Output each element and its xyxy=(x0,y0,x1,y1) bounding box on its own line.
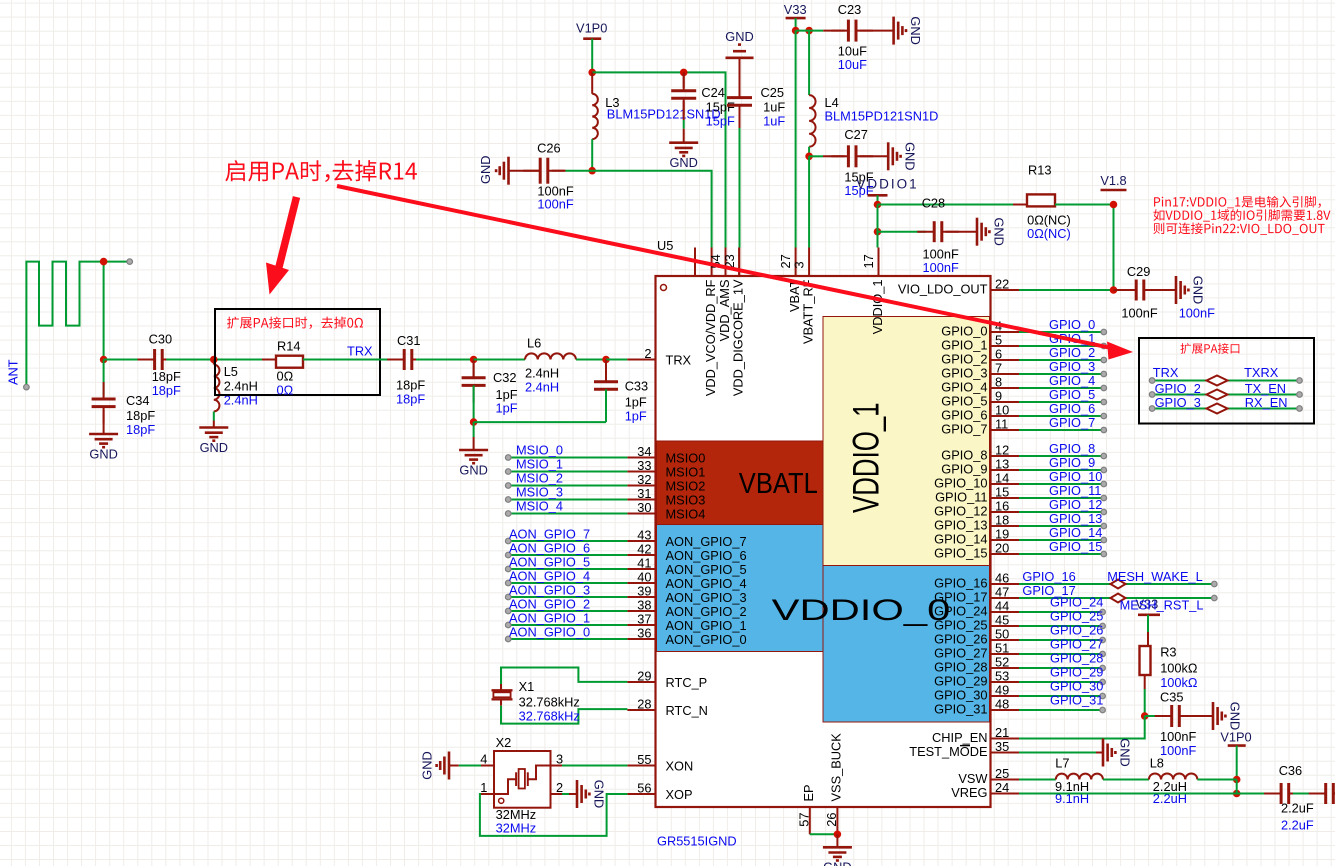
svg-text:2.2uF: 2.2uF xyxy=(1281,817,1314,832)
svg-text:GPIO_10: GPIO_10 xyxy=(1049,469,1102,484)
svg-text:TRX: TRX xyxy=(1153,365,1179,380)
svg-text:AON_GPIO_5: AON_GPIO_5 xyxy=(509,555,590,570)
svg-text:AON_GPIO_4: AON_GPIO_4 xyxy=(509,569,590,584)
svg-text:AON_GPIO_3: AON_GPIO_3 xyxy=(666,590,747,605)
svg-text:GPIO_25: GPIO_25 xyxy=(934,618,987,633)
svg-text:51: 51 xyxy=(995,641,1009,656)
svg-text:1uF: 1uF xyxy=(763,114,785,129)
svg-text:GPIO_24: GPIO_24 xyxy=(1050,595,1103,610)
svg-text:21: 21 xyxy=(995,725,1009,740)
svg-text:2.4nH: 2.4nH xyxy=(525,365,559,380)
svg-text:41: 41 xyxy=(637,556,651,571)
svg-text:10uF: 10uF xyxy=(838,57,867,72)
svg-text:VDD_DIGCORE_1V: VDD_DIGCORE_1V xyxy=(731,279,746,396)
svg-text:GR5515IGND: GR5515IGND xyxy=(657,834,737,849)
svg-text:100nF: 100nF xyxy=(1179,306,1215,321)
svg-text:GND: GND xyxy=(89,447,117,462)
svg-text:GPIO_1: GPIO_1 xyxy=(941,338,987,353)
svg-text:100nF: 100nF xyxy=(923,260,959,275)
svg-text:32.768kHz: 32.768kHz xyxy=(519,695,580,710)
svg-text:2.4nH: 2.4nH xyxy=(224,378,258,393)
svg-text:100nF: 100nF xyxy=(1160,729,1196,744)
svg-text:MSIO2: MSIO2 xyxy=(666,479,706,494)
svg-text:22: 22 xyxy=(995,277,1009,292)
svg-text:15: 15 xyxy=(995,485,1009,500)
svg-text:AON_GPIO_4: AON_GPIO_4 xyxy=(666,576,747,591)
svg-text:33: 33 xyxy=(637,458,651,473)
svg-text:100nF: 100nF xyxy=(1160,743,1196,758)
svg-text:GPIO_28: GPIO_28 xyxy=(934,660,987,675)
svg-text:18pF: 18pF xyxy=(152,369,181,384)
svg-text:VBATT_RF: VBATT_RF xyxy=(801,279,816,344)
svg-text:C26: C26 xyxy=(537,141,560,156)
svg-text:MSIO3: MSIO3 xyxy=(666,493,706,508)
svg-text:C24: C24 xyxy=(701,85,724,100)
svg-text:37: 37 xyxy=(637,612,651,627)
svg-text:39: 39 xyxy=(637,584,651,599)
svg-text:GPIO_6: GPIO_6 xyxy=(941,408,987,423)
svg-text:L8: L8 xyxy=(1150,755,1164,770)
svg-text:GPIO_31: GPIO_31 xyxy=(934,702,987,717)
svg-text:GPIO_26: GPIO_26 xyxy=(1050,623,1103,638)
svg-text:14: 14 xyxy=(995,471,1009,486)
svg-text:8: 8 xyxy=(995,375,1002,390)
svg-text:MSIO0: MSIO0 xyxy=(666,451,706,466)
svg-text:VDDIO_1: VDDIO_1 xyxy=(870,280,885,335)
svg-text:C25: C25 xyxy=(761,85,784,100)
svg-text:17: 17 xyxy=(861,254,876,268)
svg-text:MSIO_4: MSIO_4 xyxy=(516,499,563,514)
svg-text:GPIO_29: GPIO_29 xyxy=(1050,665,1103,680)
svg-text:15pF: 15pF xyxy=(706,100,735,115)
svg-text:24: 24 xyxy=(995,780,1009,795)
svg-text:GND: GND xyxy=(478,156,493,184)
svg-text:GPIO_2: GPIO_2 xyxy=(941,352,987,367)
svg-text:L5: L5 xyxy=(224,364,238,379)
svg-text:38: 38 xyxy=(637,598,651,613)
svg-text:VDDIO1: VDDIO1 xyxy=(856,176,918,191)
svg-text:3: 3 xyxy=(792,261,807,268)
svg-text:VDD_VCO/VDD_RF: VDD_VCO/VDD_RF xyxy=(703,279,718,396)
svg-text:MESH_WAKE_L: MESH_WAKE_L xyxy=(1107,569,1203,584)
svg-text:GPIO_3: GPIO_3 xyxy=(941,366,987,381)
svg-text:18pF: 18pF xyxy=(152,383,181,398)
svg-text:18pF: 18pF xyxy=(126,422,155,437)
svg-text:RX_EN: RX_EN xyxy=(1245,395,1288,410)
svg-text:GND: GND xyxy=(669,155,697,170)
svg-text:X1: X1 xyxy=(519,679,535,694)
svg-text:GPIO_6: GPIO_6 xyxy=(1049,401,1095,416)
svg-text:VSS_BUCK: VSS_BUCK xyxy=(829,733,844,802)
svg-text:44: 44 xyxy=(995,599,1009,614)
svg-text:100kΩ: 100kΩ xyxy=(1160,675,1198,690)
svg-text:GND: GND xyxy=(725,29,753,44)
svg-text:GPIO_15: GPIO_15 xyxy=(1049,539,1102,554)
svg-text:GPIO_8: GPIO_8 xyxy=(1049,441,1095,456)
svg-text:VIO_LDO_OUT: VIO_LDO_OUT xyxy=(898,282,988,297)
svg-text:GPIO_8: GPIO_8 xyxy=(941,448,987,463)
svg-text:GND: GND xyxy=(1191,276,1206,304)
svg-text:13: 13 xyxy=(995,457,1009,472)
svg-text:49: 49 xyxy=(995,683,1009,698)
svg-text:C34: C34 xyxy=(126,393,149,408)
svg-text:46: 46 xyxy=(995,571,1009,586)
svg-text:GND: GND xyxy=(1118,738,1133,766)
svg-text:34: 34 xyxy=(637,444,651,459)
svg-text:GPIO_13: GPIO_13 xyxy=(934,518,987,533)
svg-text:25: 25 xyxy=(995,766,1009,781)
svg-text:4: 4 xyxy=(480,752,487,767)
svg-text:AON_GPIO_7: AON_GPIO_7 xyxy=(509,527,590,542)
svg-text:V1.8: V1.8 xyxy=(1100,173,1126,188)
svg-text:1: 1 xyxy=(480,780,487,795)
svg-text:AON_GPIO_7: AON_GPIO_7 xyxy=(666,534,747,549)
svg-text:C32: C32 xyxy=(493,370,516,385)
svg-text:C31: C31 xyxy=(397,333,420,348)
svg-text:TRX: TRX xyxy=(347,343,373,358)
svg-text:TEST_MODE: TEST_MODE xyxy=(909,744,987,759)
svg-text:R14: R14 xyxy=(277,339,300,354)
svg-text:GPIO_24: GPIO_24 xyxy=(934,604,987,619)
svg-text:MSIO_3: MSIO_3 xyxy=(516,485,563,500)
svg-text:0Ω: 0Ω xyxy=(277,383,294,398)
svg-text:32.768kHz: 32.768kHz xyxy=(519,709,580,724)
svg-text:EP: EP xyxy=(801,784,816,801)
svg-text:GPIO_30: GPIO_30 xyxy=(934,688,987,703)
svg-text:RTC_P: RTC_P xyxy=(666,675,708,690)
svg-text:MSIO_1: MSIO_1 xyxy=(516,457,563,472)
svg-text:GPIO_5: GPIO_5 xyxy=(941,394,987,409)
svg-text:47: 47 xyxy=(995,585,1009,600)
svg-text:15pF: 15pF xyxy=(706,114,735,129)
svg-text:GPIO_11: GPIO_11 xyxy=(1049,483,1101,498)
svg-text:18pF: 18pF xyxy=(396,377,425,392)
svg-text:GPIO_27: GPIO_27 xyxy=(934,646,987,661)
svg-text:GPIO_31: GPIO_31 xyxy=(1050,693,1103,708)
svg-text:MSIO_2: MSIO_2 xyxy=(516,471,563,486)
svg-text:GPIO_12: GPIO_12 xyxy=(1049,497,1102,512)
svg-text:45: 45 xyxy=(995,613,1009,628)
svg-text:GND: GND xyxy=(992,217,1007,245)
svg-text:100kΩ: 100kΩ xyxy=(1160,661,1198,676)
svg-text:GPIO_13: GPIO_13 xyxy=(1049,511,1102,526)
svg-text:GPIO_4: GPIO_4 xyxy=(1049,373,1095,388)
svg-text:2.2uF: 2.2uF xyxy=(1281,800,1314,815)
svg-text:GPIO_7: GPIO_7 xyxy=(941,422,987,437)
svg-text:6: 6 xyxy=(995,347,1002,362)
svg-text:AON_GPIO_1: AON_GPIO_1 xyxy=(509,611,590,626)
svg-text:GPIO_29: GPIO_29 xyxy=(934,674,987,689)
svg-text:3: 3 xyxy=(556,752,563,767)
svg-text:GND: GND xyxy=(592,780,607,808)
svg-text:GPIO_0: GPIO_0 xyxy=(941,324,987,339)
svg-text:C27: C27 xyxy=(844,127,867,142)
svg-text:29: 29 xyxy=(637,669,651,684)
svg-text:GPIO_4: GPIO_4 xyxy=(941,380,987,395)
svg-text:AON_GPIO_0: AON_GPIO_0 xyxy=(509,625,590,640)
svg-text:VDDIO_0: VDDIO_0 xyxy=(772,594,951,627)
svg-text:AON_GPIO_5: AON_GPIO_5 xyxy=(666,562,747,577)
svg-text:31: 31 xyxy=(637,486,651,501)
svg-text:VDDIO_1: VDDIO_1 xyxy=(846,402,887,513)
svg-text:GND: GND xyxy=(420,751,435,779)
svg-text:AON_GPIO_3: AON_GPIO_3 xyxy=(509,583,590,598)
svg-text:TX_EN: TX_EN xyxy=(1245,381,1286,396)
svg-text:43: 43 xyxy=(637,528,651,543)
svg-text:GPIO_2: GPIO_2 xyxy=(1049,345,1095,360)
svg-text:GPIO_5: GPIO_5 xyxy=(1049,387,1095,402)
svg-text:R13: R13 xyxy=(1028,163,1051,178)
svg-text:20: 20 xyxy=(995,541,1009,556)
svg-text:26: 26 xyxy=(824,813,839,827)
svg-text:BLM15PD121SN1D: BLM15PD121SN1D xyxy=(607,107,721,122)
svg-text:VBATL: VBATL xyxy=(739,467,818,499)
svg-text:L7: L7 xyxy=(1055,755,1069,770)
svg-text:AON_GPIO_1: AON_GPIO_1 xyxy=(666,618,747,633)
svg-text:GPIO_3: GPIO_3 xyxy=(1049,359,1095,374)
svg-text:32: 32 xyxy=(637,472,651,487)
svg-text:RTC_N: RTC_N xyxy=(666,703,708,718)
svg-text:19: 19 xyxy=(995,527,1009,542)
svg-text:AON_GPIO_6: AON_GPIO_6 xyxy=(666,548,747,563)
svg-text:GPIO_16: GPIO_16 xyxy=(1022,569,1075,584)
svg-text:48: 48 xyxy=(995,697,1009,712)
svg-text:GPIO_26: GPIO_26 xyxy=(934,632,987,647)
svg-text:30: 30 xyxy=(637,500,651,515)
svg-text:7: 7 xyxy=(995,361,1002,376)
svg-text:1pF: 1pF xyxy=(625,394,647,409)
svg-text:XOP: XOP xyxy=(666,787,693,802)
svg-text:C33: C33 xyxy=(625,379,648,394)
svg-text:55: 55 xyxy=(637,752,651,767)
svg-text:L6: L6 xyxy=(527,335,541,350)
svg-text:U5: U5 xyxy=(657,238,673,253)
svg-text:100nF: 100nF xyxy=(537,197,573,212)
svg-text:9: 9 xyxy=(995,389,1002,404)
svg-text:GND: GND xyxy=(903,142,918,170)
svg-text:40: 40 xyxy=(637,570,651,585)
svg-text:50: 50 xyxy=(995,627,1009,642)
svg-text:GPIO_11: GPIO_11 xyxy=(935,490,987,505)
svg-text:28: 28 xyxy=(637,697,651,712)
svg-text:GPIO_27: GPIO_27 xyxy=(1050,637,1103,652)
svg-text:35: 35 xyxy=(995,739,1009,754)
svg-text:1pF: 1pF xyxy=(625,408,647,423)
svg-text:1pF: 1pF xyxy=(496,401,518,416)
svg-text:GPIO_10: GPIO_10 xyxy=(934,476,987,491)
svg-text:GPIO_14: GPIO_14 xyxy=(1049,525,1102,540)
svg-text:GPIO_7: GPIO_7 xyxy=(1049,415,1095,430)
svg-text:MESH_RST_L: MESH_RST_L xyxy=(1120,598,1204,613)
svg-text:AON_GPIO_2: AON_GPIO_2 xyxy=(509,597,590,612)
svg-text:C23: C23 xyxy=(838,2,861,17)
svg-text:GPIO_14: GPIO_14 xyxy=(934,532,987,547)
svg-text:X2: X2 xyxy=(496,735,512,750)
svg-text:ANT: ANT xyxy=(6,359,21,385)
svg-text:AON_GPIO_0: AON_GPIO_0 xyxy=(666,632,747,647)
svg-text:GPIO_2: GPIO_2 xyxy=(1155,381,1201,396)
svg-text:C29: C29 xyxy=(1127,264,1150,279)
svg-text:MSIO_0: MSIO_0 xyxy=(516,443,563,458)
svg-text:AON_GPIO_2: AON_GPIO_2 xyxy=(666,604,747,619)
svg-text:C36: C36 xyxy=(1279,763,1302,778)
svg-text:GPIO_16: GPIO_16 xyxy=(934,576,987,591)
svg-text:1uF: 1uF xyxy=(763,100,785,115)
svg-text:18: 18 xyxy=(995,513,1009,528)
svg-text:R3: R3 xyxy=(1160,645,1176,660)
svg-text:GPIO_28: GPIO_28 xyxy=(1050,651,1103,666)
svg-text:VSW: VSW xyxy=(958,771,988,786)
svg-text:MSIO4: MSIO4 xyxy=(666,507,706,522)
svg-text:GND: GND xyxy=(908,16,923,44)
svg-text:XON: XON xyxy=(666,759,694,774)
svg-text:CHIP_EN: CHIP_EN xyxy=(932,730,987,745)
svg-text:GPIO_12: GPIO_12 xyxy=(934,504,987,519)
svg-text:BLM15PD121SN1D: BLM15PD121SN1D xyxy=(825,108,939,123)
svg-text:MSIO1: MSIO1 xyxy=(666,465,706,480)
svg-text:TXRX: TXRX xyxy=(1244,365,1279,380)
svg-text:VREG: VREG xyxy=(951,785,987,800)
svg-text:100nF: 100nF xyxy=(1121,306,1157,321)
svg-text:2.4nH: 2.4nH xyxy=(525,379,559,394)
svg-text:GPIO_3: GPIO_3 xyxy=(1155,395,1201,410)
svg-text:GPIO_30: GPIO_30 xyxy=(1050,679,1103,694)
svg-text:V1P0: V1P0 xyxy=(576,21,607,36)
svg-text:AON_GPIO_6: AON_GPIO_6 xyxy=(509,541,590,556)
svg-text:GPIO_25: GPIO_25 xyxy=(1050,609,1103,624)
svg-text:16: 16 xyxy=(995,499,1009,514)
svg-text:53: 53 xyxy=(995,669,1009,684)
svg-text:C35: C35 xyxy=(1160,690,1183,705)
svg-text:GPIO_17: GPIO_17 xyxy=(934,590,987,605)
svg-text:V1P0: V1P0 xyxy=(1220,730,1251,745)
svg-text:GND: GND xyxy=(200,440,228,455)
svg-text:GND: GND xyxy=(823,860,851,866)
svg-text:0Ω: 0Ω xyxy=(277,369,294,384)
svg-text:5: 5 xyxy=(995,333,1002,348)
svg-text:56: 56 xyxy=(637,781,651,796)
svg-text:57: 57 xyxy=(796,813,811,827)
svg-text:C30: C30 xyxy=(149,332,172,347)
svg-text:2: 2 xyxy=(556,780,563,795)
svg-text:52: 52 xyxy=(995,655,1009,670)
svg-text:32MHz: 32MHz xyxy=(496,821,537,836)
svg-text:11: 11 xyxy=(995,417,1008,432)
svg-text:42: 42 xyxy=(637,542,651,557)
svg-text:C28: C28 xyxy=(922,196,945,211)
svg-text:GPIO_15: GPIO_15 xyxy=(934,546,987,561)
svg-text:GPIO_9: GPIO_9 xyxy=(941,462,987,477)
svg-text:18pF: 18pF xyxy=(396,391,425,406)
svg-text:V33: V33 xyxy=(784,2,807,17)
svg-text:12: 12 xyxy=(995,443,1009,458)
svg-text:GND: GND xyxy=(1228,702,1243,730)
svg-text:GND: GND xyxy=(459,463,487,478)
svg-text:36: 36 xyxy=(637,626,651,641)
svg-text:GPIO_0: GPIO_0 xyxy=(1049,317,1095,332)
svg-text:10: 10 xyxy=(995,403,1009,418)
svg-text:18pF: 18pF xyxy=(126,408,155,423)
svg-text:GPIO_9: GPIO_9 xyxy=(1049,455,1095,470)
svg-text:0Ω(NC): 0Ω(NC) xyxy=(1027,226,1071,241)
svg-text:TRX: TRX xyxy=(666,353,692,368)
